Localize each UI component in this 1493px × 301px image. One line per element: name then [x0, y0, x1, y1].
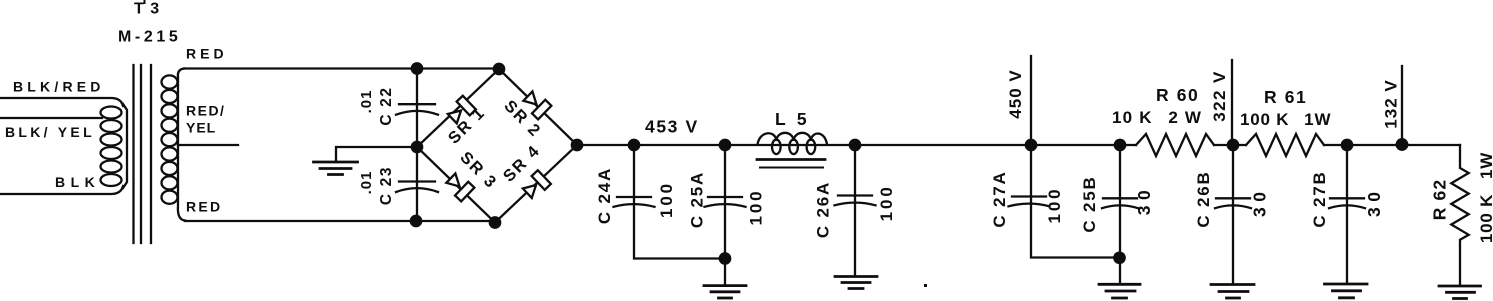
- svg-text:100 K 1W: 100 K 1W: [1477, 152, 1493, 243]
- primary lead BLK: [0, 186, 123, 194]
- svg-text:450 V: 450 V: [1006, 69, 1025, 118]
- svg-text:R 61: R 61: [1264, 87, 1307, 107]
- svg-text:100: 100: [1045, 186, 1064, 223]
- svg-text:100: 100: [657, 181, 676, 218]
- resistor R62: [1451, 145, 1468, 285]
- rectifier SR4: [495, 145, 577, 223]
- capacitor C27A: [1031, 145, 1120, 258]
- ground (C24A/C25A): [704, 284, 746, 287]
- svg-text:RED: RED: [186, 46, 228, 62]
- bridge node bottom: [490, 217, 500, 227]
- capacitor C22: [416, 69, 418, 148]
- svg-text:.01: .01: [358, 171, 375, 195]
- svg-text:L 5: L 5: [775, 109, 810, 129]
- svg-text:C 27A: C 27A: [990, 170, 1009, 227]
- svg-text:.01: .01: [358, 90, 375, 114]
- rectifier SR1: [417, 69, 499, 147]
- svg-text:RED/: RED/: [186, 103, 225, 119]
- inductor L5: [758, 133, 777, 144]
- svg-text:C 24A: C 24A: [595, 167, 614, 224]
- ground (C27B): [1325, 283, 1368, 286]
- svg-text:T 3: T 3: [134, 1, 160, 18]
- svg-text:C 23: C 23: [378, 166, 395, 205]
- ground (C27A/C25B): [1099, 283, 1140, 286]
- secondary lead RED bottom / wire to bridge bottom: [185, 220, 495, 222]
- svg-text:C 22: C 22: [378, 86, 395, 125]
- secondary winding T3: [178, 69, 185, 221]
- rectifier SR3: [417, 147, 495, 223]
- svg-text:C 25A: C 25A: [688, 171, 707, 228]
- svg-text:100: 100: [747, 188, 766, 225]
- svg-text:132 V: 132 V: [1382, 79, 1401, 128]
- svg-text:BLK/ YEL: BLK/ YEL: [5, 124, 95, 140]
- svg-text:YEL: YEL: [186, 120, 216, 136]
- svg-text:C 26B: C 26B: [1194, 170, 1213, 227]
- bridge node top: [494, 64, 504, 74]
- svg-text:RED: RED: [186, 199, 222, 215]
- primary lead BLK/YEL: [0, 117, 102, 119]
- transformer core: [132, 65, 134, 243]
- svg-text:322 V: 322 V: [1210, 70, 1229, 121]
- svg-text:R 60: R 60: [1156, 85, 1199, 105]
- capacitor C24A: [634, 145, 725, 259]
- svg-text:30: 30: [1364, 187, 1384, 217]
- resistor R61: [1246, 134, 1324, 156]
- node 322V marker: [1228, 140, 1238, 150]
- capacitor C26B: [1232, 145, 1234, 284]
- capacitor C26A: [850, 140, 860, 150]
- transformer T3 label: [144, 0, 146, 4]
- ground (C26B): [1211, 283, 1254, 286]
- ground (C26A): [835, 275, 877, 278]
- svg-text:453 V: 453 V: [645, 116, 699, 136]
- svg-text:10 K 2 W: 10 K 2 W: [1112, 108, 1202, 127]
- capacitor C27B: [1342, 140, 1352, 150]
- svg-text:C 27B: C 27B: [1310, 170, 1329, 227]
- svg-text:30: 30: [1134, 185, 1154, 215]
- resistor R60: [1136, 134, 1214, 156]
- rectifier SR2: [499, 69, 577, 145]
- capacitor C23: [416, 147, 418, 221]
- svg-text:R 62: R 62: [1430, 179, 1450, 220]
- stray mark: [924, 284, 927, 287]
- primary lead BLK/RED: [0, 98, 123, 106]
- bridge node left: [412, 142, 422, 152]
- svg-text:30: 30: [1250, 187, 1270, 217]
- ground (R62): [1439, 285, 1481, 288]
- node dot bottom rail: [411, 216, 421, 226]
- L5 core lines: [757, 158, 825, 161]
- capacitor C25A: [720, 140, 730, 150]
- bridge node right: [572, 140, 582, 150]
- svg-text:C 26A: C 26A: [814, 181, 833, 238]
- primary winding T3: [123, 104, 127, 188]
- node 453V: [629, 140, 639, 150]
- ground (bridge center): [336, 147, 417, 161]
- node 450V marker: [1026, 140, 1036, 150]
- capacitor C25B: [1115, 140, 1125, 150]
- node dot top rail: [412, 63, 422, 73]
- svg-text:C 25B: C 25B: [1080, 175, 1099, 232]
- svg-text:BLK/RED: BLK/RED: [13, 79, 105, 95]
- main rail wire: [577, 144, 1136, 146]
- center tap RED/YEL stub: [178, 144, 238, 146]
- svg-text:BLK: BLK: [55, 174, 100, 190]
- svg-text:M-215: M-215: [118, 29, 181, 46]
- svg-text:100: 100: [877, 184, 896, 221]
- svg-text:100 K 1W: 100 K 1W: [1240, 110, 1331, 129]
- secondary lead RED top / wire to bridge top: [184, 67, 499, 69]
- node 132V marker: [1397, 139, 1408, 150]
